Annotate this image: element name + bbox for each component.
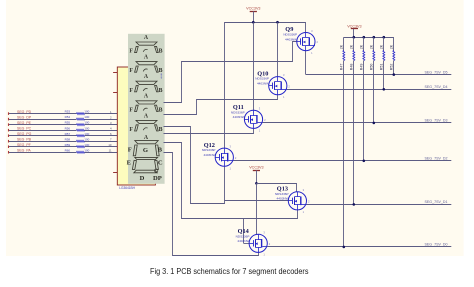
svg-text:SEG_PE: SEG_PE xyxy=(17,121,32,125)
svg-text:R51: R51 xyxy=(379,64,383,71)
svg-text:R52: R52 xyxy=(389,64,393,71)
svg-text:NDS336P: NDS336P xyxy=(231,110,245,114)
svg-text:NDS336P: NDS336P xyxy=(275,192,289,196)
svg-text:SEG_DP: SEG_DP xyxy=(17,115,32,119)
svg-text:R48: R48 xyxy=(349,64,353,71)
svg-text:VCC3V3: VCC3V3 xyxy=(347,24,361,28)
svg-text:DP: DP xyxy=(153,175,162,182)
svg-text:4403NW: 4403NW xyxy=(277,197,289,201)
svg-text:B: B xyxy=(159,49,163,55)
svg-text:100: 100 xyxy=(84,148,89,152)
svg-text:4403NW: 4403NW xyxy=(285,37,297,41)
svg-text:C: C xyxy=(158,159,163,166)
svg-text:VCC3V3: VCC3V3 xyxy=(246,7,260,11)
svg-text:D: D xyxy=(140,175,145,182)
svg-text:F: F xyxy=(129,88,133,94)
svg-text:SEG_PA: SEG_PA xyxy=(17,148,31,152)
svg-text:SEG_7SV_D1: SEG_7SV_D1 xyxy=(425,200,448,204)
svg-text:G: G xyxy=(143,147,148,154)
svg-text:SEG_7SV_D5: SEG_7SV_D5 xyxy=(425,70,448,74)
svg-text:100: 100 xyxy=(84,126,89,130)
svg-text:R57: R57 xyxy=(65,132,71,136)
svg-text:F: F xyxy=(129,68,133,74)
svg-text:100: 100 xyxy=(84,137,89,141)
svg-text:SEG_PG: SEG_PG xyxy=(17,132,32,136)
svg-text:100: 100 xyxy=(84,115,89,119)
svg-text:2K: 2K xyxy=(359,44,363,49)
svg-text:4403NW: 4403NW xyxy=(203,153,215,157)
svg-text:2K: 2K xyxy=(379,44,383,49)
svg-text:100: 100 xyxy=(84,132,89,136)
svg-text:10: 10 xyxy=(108,143,112,147)
svg-text:B: B xyxy=(159,107,163,113)
svg-text:SEG_PC: SEG_PC xyxy=(17,126,32,130)
svg-text:SEG_PD: SEG_PD xyxy=(17,110,32,114)
svg-text:F: F xyxy=(129,49,133,55)
svg-text:NDS336P: NDS336P xyxy=(202,148,216,152)
svg-text:4403NW: 4403NW xyxy=(237,239,249,243)
svg-text:R60: R60 xyxy=(65,148,71,152)
svg-text:E: E xyxy=(127,159,132,166)
svg-text:2K: 2K xyxy=(339,44,343,49)
svg-text:11: 11 xyxy=(109,149,112,153)
svg-text:SEG_PB: SEG_PB xyxy=(17,137,32,141)
svg-text:LG3641BH: LG3641BH xyxy=(119,186,135,190)
svg-text:100: 100 xyxy=(84,121,89,125)
svg-text:R56: R56 xyxy=(65,126,71,130)
svg-text:VCC3V3: VCC3V3 xyxy=(249,166,263,170)
svg-text:SEG_7SV_D2: SEG_7SV_D2 xyxy=(425,157,448,161)
svg-text:F: F xyxy=(128,147,132,154)
svg-text:4403NW: 4403NW xyxy=(233,115,245,119)
svg-text:R58: R58 xyxy=(65,137,71,141)
svg-text:R47: R47 xyxy=(339,64,343,71)
svg-text:4403NW: 4403NW xyxy=(257,82,269,86)
svg-text:B: B xyxy=(159,127,163,133)
svg-text:R53: R53 xyxy=(65,110,71,114)
svg-text:NDS336P: NDS336P xyxy=(283,33,297,37)
svg-text:F: F xyxy=(129,107,133,113)
svg-text:B: B xyxy=(159,88,163,94)
svg-text:Fig 3. 1 PCB schematics for 7: Fig 3. 1 PCB schematics for 7 segment de… xyxy=(150,267,309,276)
svg-text:100: 100 xyxy=(84,110,89,114)
svg-text:2K: 2K xyxy=(389,44,393,49)
svg-text:SEG_7SV_D0: SEG_7SV_D0 xyxy=(425,243,448,247)
svg-text:100: 100 xyxy=(84,143,89,147)
svg-text:SEG_7SV_D4: SEG_7SV_D4 xyxy=(425,85,448,89)
svg-text:SEG_7SV_D3: SEG_7SV_D3 xyxy=(425,119,448,123)
svg-text:F: F xyxy=(129,127,133,133)
svg-text:R54: R54 xyxy=(65,115,71,119)
svg-text:R50: R50 xyxy=(369,64,373,71)
svg-text:R49: R49 xyxy=(359,64,363,71)
svg-text:2K: 2K xyxy=(369,44,373,49)
svg-text:SEG_PF: SEG_PF xyxy=(17,143,31,147)
svg-text:B: B xyxy=(158,147,163,154)
svg-text:2K: 2K xyxy=(349,44,353,49)
svg-text:NDS336P: NDS336P xyxy=(255,77,269,81)
svg-text:NDS336P: NDS336P xyxy=(236,234,250,238)
svg-text:R55: R55 xyxy=(65,121,71,125)
svg-text:R59: R59 xyxy=(65,143,71,147)
